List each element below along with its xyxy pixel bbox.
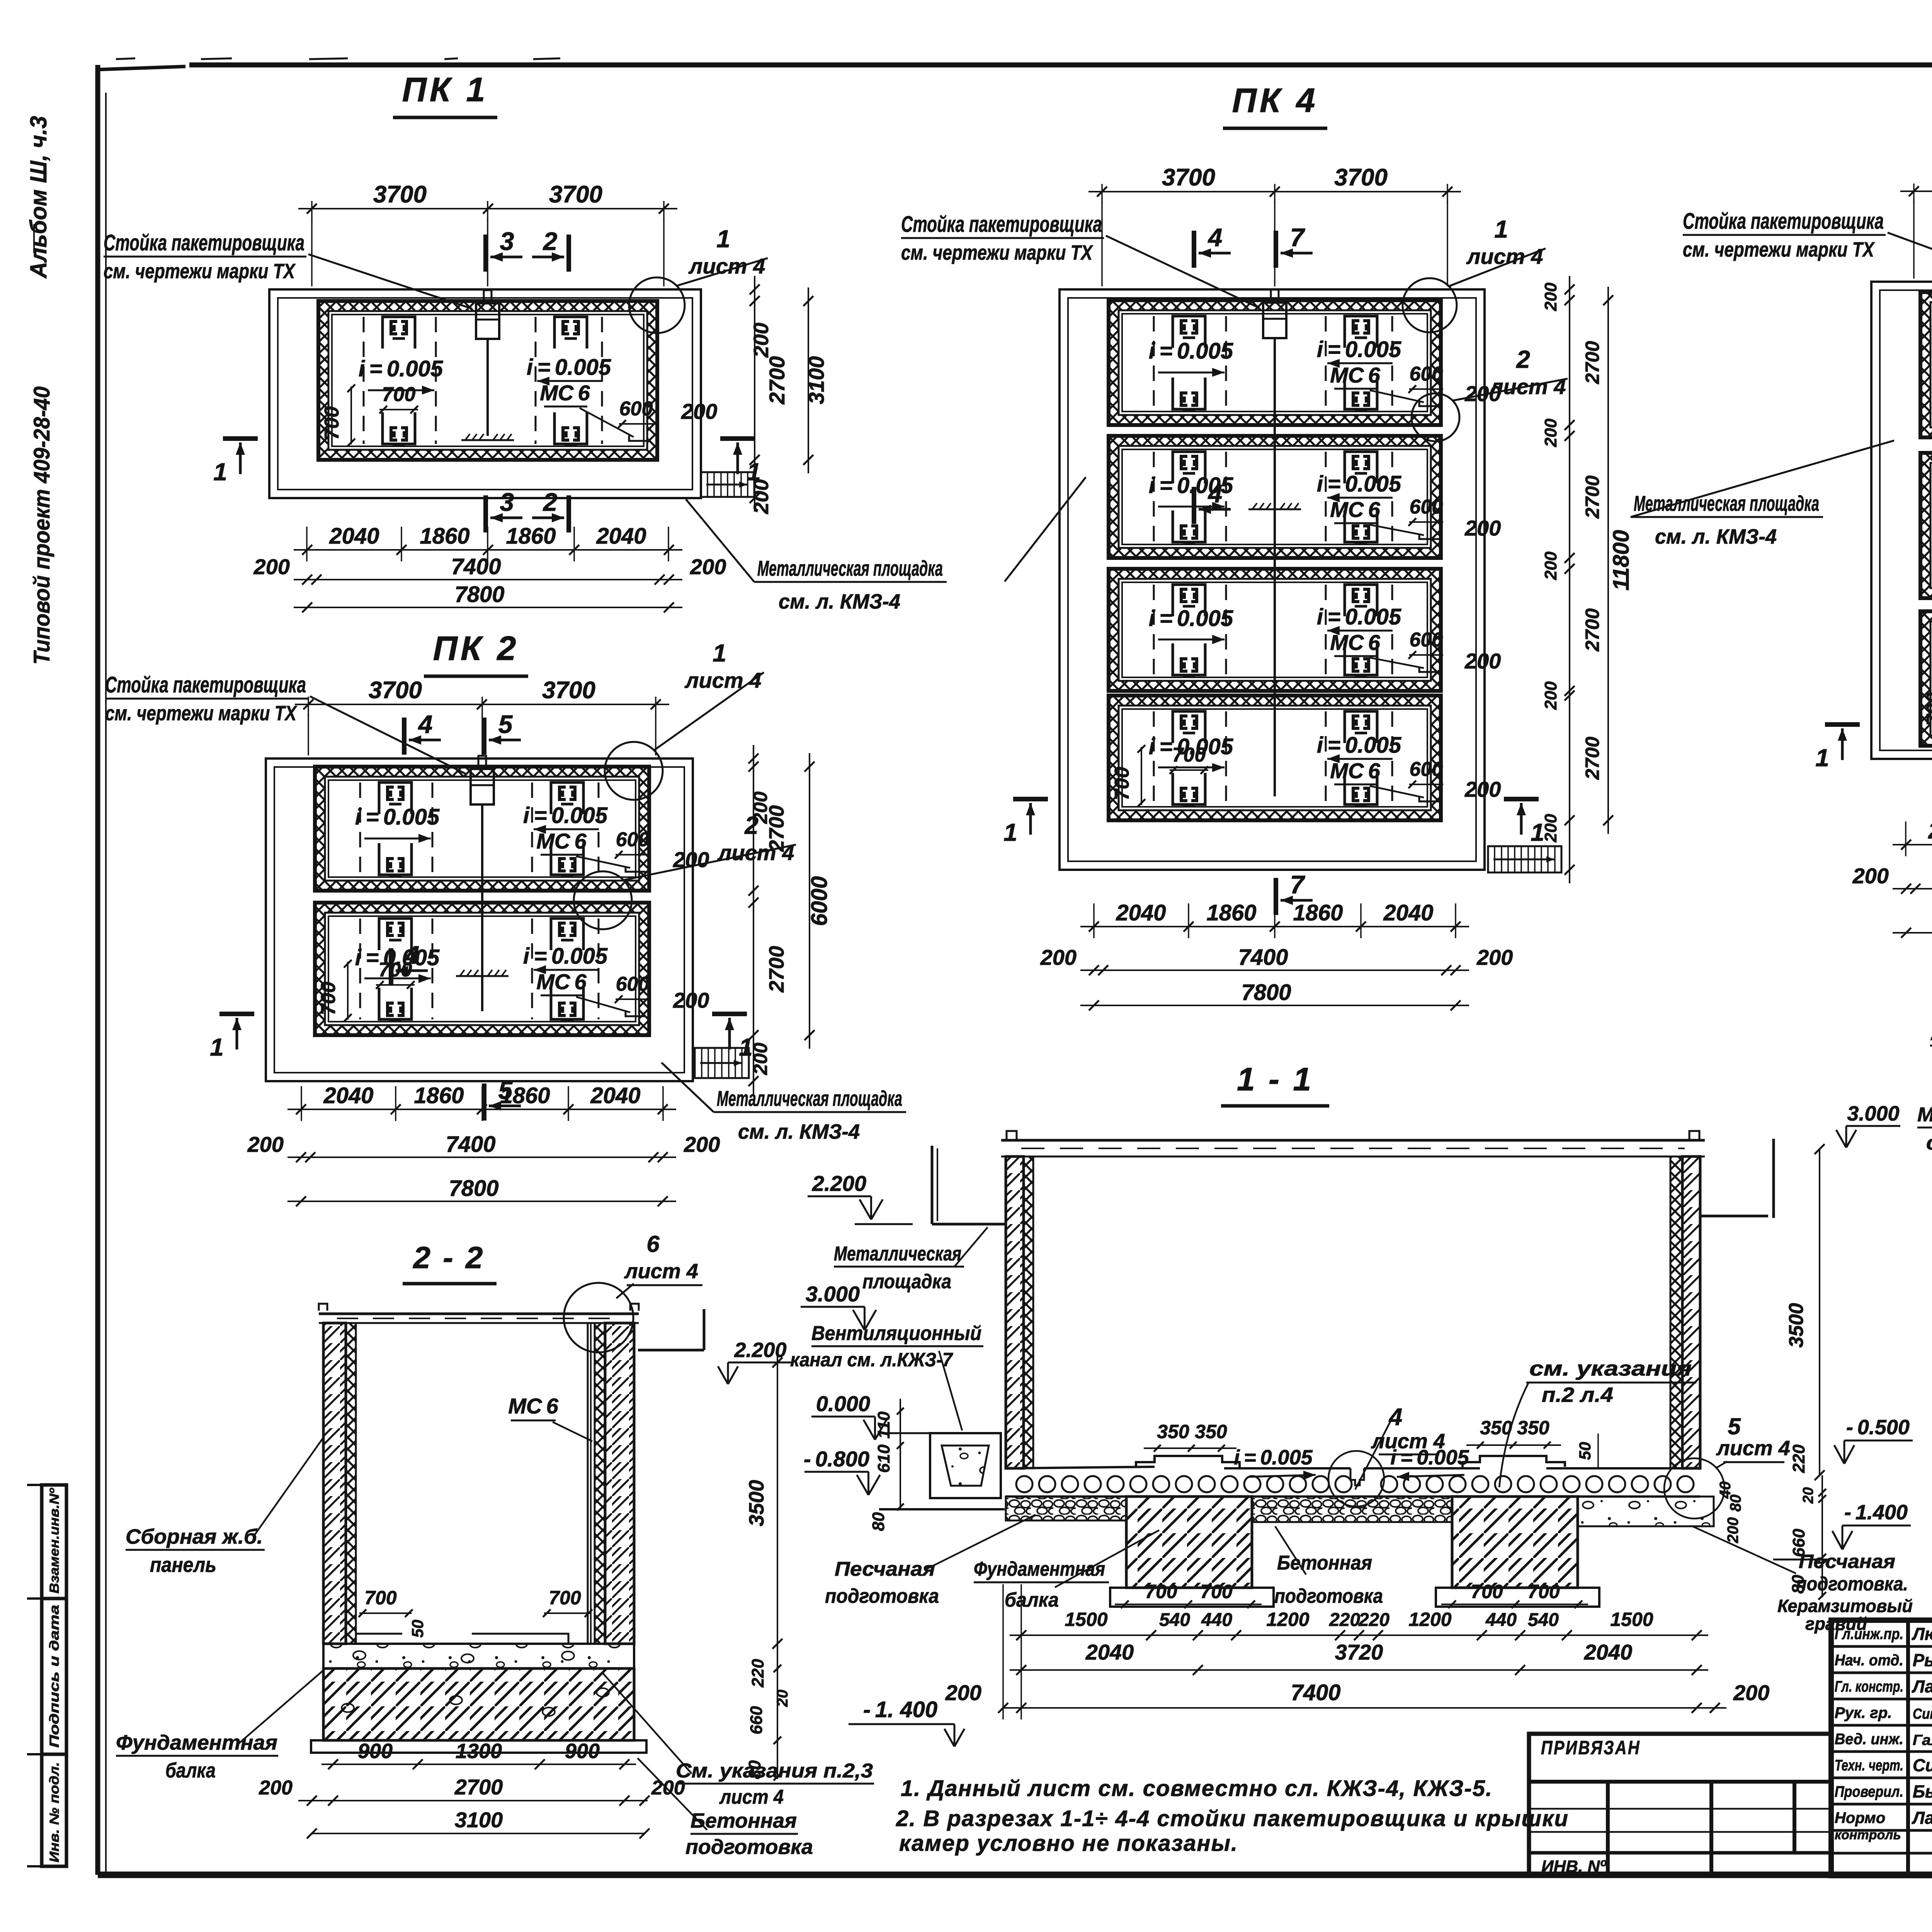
svg-text:2700: 2700 [1582,341,1603,384]
svg-text:610: 610 [874,1444,893,1473]
svg-text:80: 80 [1789,1575,1808,1594]
svg-text:лист 4: лист 4 [1466,244,1543,269]
svg-text:2700: 2700 [765,946,788,993]
dimension 3700+3700 ПК 4 [1088,191,1461,192]
svg-text:см. чертежи марки ТХ: см. чертежи марки ТХ [1683,238,1875,261]
svg-text:700: 700 [1200,1581,1233,1602]
section mark 1 vertical ПК 2 [219,1012,254,1016]
section mark 4 ПК 2 [402,718,406,755]
svg-text:7800: 7800 [454,582,504,607]
svg-text:3700: 3700 [1162,164,1215,191]
svg-text:2. В разрезах 1-1÷ 4-4 стойки: 2. В разрезах 1-1÷ 4-4 стойки пакетировщ… [896,1806,1569,1831]
svg-text:i = 0.005: i = 0.005 [523,803,608,828]
svg-text:i = 0.005: i = 0.005 [359,356,443,381]
section mark 3 ПК 1 [483,235,488,272]
svg-text:ПК 1: ПК 1 [402,70,488,109]
svg-text:200: 200 [750,479,773,514]
section 1-1 foundation beams [1126,1497,1252,1588]
svg-text:700: 700 [364,1587,397,1609]
svg-text:6: 6 [646,1231,660,1257]
svg-text:Керамзитовый: Керамзитовый [1777,1596,1913,1616]
svg-text:1500: 1500 [1065,1609,1107,1630]
svg-text:110: 110 [874,1411,893,1439]
svg-text:3100: 3100 [455,1808,503,1832]
I-beam supports ПК 1.1 [383,317,415,349]
plan ПК 1 stairs [701,472,754,497]
svg-text:3100: 3100 [804,356,828,405]
svg-text:200: 200 [259,1777,293,1799]
svg-text:Рыбкина: Рыбкина [1913,1650,1932,1670]
svg-text:3700: 3700 [1334,164,1388,191]
bottom dimension chains ПК 3 [1893,844,1932,845]
section mark 4 ПК 4 [1192,487,1196,524]
svg-text:200: 200 [945,1680,981,1705]
svg-text:см. чертежи марки ТХ: см. чертежи марки ТХ [105,702,297,725]
svg-text:i = 0.005: i = 0.005 [1149,606,1233,631]
svg-text:700: 700 [1471,1581,1503,1602]
svg-text:Симакова: Симакова [1913,1755,1932,1775]
svg-text:п.2 л.4: п.2 л.4 [1542,1383,1613,1406]
svg-text:660: 660 [747,1706,766,1735]
svg-text:лист 4: лист 4 [1716,1437,1790,1460]
svg-text:2: 2 [1516,345,1530,373]
dashed crane axes ПК 4.3 [1153,585,1155,675]
svg-text:3700: 3700 [369,677,422,704]
svg-text:350: 350 [1517,1417,1549,1439]
svg-text:1. Данный лист см. совместно: 1. Данный лист см. совместно сл. КЖЗ-4, … [901,1776,1493,1801]
section mark 7 ПК 4 [1274,878,1278,915]
svg-text:700: 700 [1527,1581,1560,1602]
svg-text:подготовка: подготовка [1274,1585,1383,1607]
svg-text:7800: 7800 [449,1176,498,1201]
svg-text:440: 440 [1485,1610,1517,1630]
svg-text:Быстров: Быстров [1913,1782,1932,1801]
svg-text:Гл.инж.пр.: Гл.инж.пр. [1835,1626,1903,1643]
section 1-1 floor plinths [1136,1456,1240,1468]
svg-text:200: 200 [1852,864,1889,888]
svg-text:ИНВ. Nº: ИНВ. Nº [1541,1857,1607,1876]
svg-text:Металлическая площадка: Металлическая площадка [1634,491,1819,515]
svg-text:Метал. площадка: Метал. площадка [1917,1104,1932,1126]
svg-text:контроль: контроль [1835,1828,1901,1842]
svg-text:2 - 2: 2 - 2 [412,1240,485,1275]
svg-text:1: 1 [1003,818,1017,846]
svg-text:МС 6: МС 6 [536,829,587,853]
svg-text:Вед. инж.: Вед. инж. [1835,1731,1903,1748]
svg-text:2040: 2040 [596,524,646,549]
dashed crane axes ПК 2.2 [359,918,361,1019]
svg-text:600: 600 [616,973,650,995]
svg-text:МС 6: МС 6 [1330,497,1380,522]
plan ПК 4 platform outline [1060,289,1485,870]
svg-text:лист 4: лист 4 [1489,374,1566,399]
svg-text:440: 440 [1201,1610,1232,1630]
section 2-2 top detail circle 6 [564,1283,633,1352]
packer stand ПК 4 [1271,289,1279,302]
privyazan box [1529,1734,1831,1876]
svg-text:балка: балка [1005,1589,1059,1611]
svg-text:см. указания: см. указания [1529,1357,1692,1380]
section 1-1 floor slab with voids [1006,1467,1155,1468]
svg-text:3.000: 3.000 [806,1282,860,1306]
chamber wall ПК 4.3 with insulation hatch [1109,569,1441,691]
svg-text:350: 350 [1480,1417,1512,1439]
svg-text:3: 3 [500,488,514,516]
chamber wall ПК 3.2 with insulation hatch [1920,453,1932,598]
svg-text:700: 700 [382,383,416,406]
svg-text:1860: 1860 [1293,900,1343,925]
svg-text:1860: 1860 [506,524,556,549]
svg-text:2040: 2040 [1383,900,1433,925]
I-beam supports ПК 4.3 [1173,585,1205,616]
svg-text:Техн. черт.: Техн. черт. [1835,1757,1903,1774]
svg-text:2700: 2700 [765,356,789,405]
svg-text:3: 3 [500,227,514,255]
dimension 3700+3700 ПК 2 [295,704,669,705]
svg-text:МС 6: МС 6 [540,381,590,405]
plan ПК 3 platform outline [1871,282,1932,759]
svg-text:2: 2 [543,227,558,255]
chamber wall ПК 3.3 with insulation hatch [1920,611,1932,746]
svg-text:200: 200 [1541,681,1560,710]
svg-text:Металлическая площадка: Металлическая площадка [757,556,943,580]
plan ПК 2 stairs [695,1048,749,1078]
svg-text:200: 200 [1733,1680,1769,1705]
section mark 5 ПК 2 [482,1083,486,1121]
svg-text:200: 200 [247,1132,284,1156]
section 2-2 floor slab [323,1644,634,1668]
svg-text:200: 200 [690,554,726,579]
svg-text:см. л. КМЗ-4: см. л. КМЗ-4 [1655,525,1777,548]
section mark 4 ПК 4 [1192,231,1196,268]
svg-text:200: 200 [253,554,290,579]
svg-text:Фундаментная: Фундаментная [974,1558,1105,1580]
svg-text:200: 200 [1464,777,1501,801]
svg-text:1300: 1300 [456,1740,502,1763]
svg-text:Фундаментная: Фундаментная [116,1731,277,1754]
svg-text:лист 4: лист 4 [719,1786,784,1808]
svg-text:4: 4 [1388,1404,1402,1430]
svg-text:220: 220 [1358,1610,1389,1630]
svg-text:40: 40 [1717,1481,1734,1499]
svg-text:1: 1 [716,225,730,253]
svg-text:1200: 1200 [1408,1609,1451,1630]
section 2-2 right vertical dims [777,1349,778,1657]
svg-text:- 0.500: - 0.500 [1846,1416,1910,1439]
svg-text:0.000: 0.000 [816,1391,870,1416]
section mark 1 vertical ПК 3 [1825,722,1860,727]
ground hatch at rail base ПК 4 [1248,509,1301,510]
section 2-2 cover slab [319,1313,639,1315]
svg-text:- 1.400: - 1.400 [1844,1501,1908,1524]
svg-text:540: 540 [1528,1610,1559,1630]
packer stand ПК 1 [484,290,492,303]
svg-text:700: 700 [321,406,343,440]
svg-text:панель: панель [150,1553,216,1577]
svg-text:Нормо: Нормо [1835,1810,1885,1827]
detail circle 1 list 4 ПК 4 [1403,278,1457,332]
section mark 3 ПК 1 [483,495,488,532]
svg-text:2040: 2040 [1584,1640,1633,1664]
svg-text:200: 200 [1476,945,1513,969]
chamber wall ПК 1.1 with insulation hatch [318,301,657,460]
svg-text:Лапкин: Лапкин [1912,1677,1932,1696]
svg-text:2.200: 2.200 [1930,1022,1932,1045]
svg-text:2040: 2040 [1085,1640,1134,1664]
svg-text:200: 200 [684,1132,720,1156]
svg-text:Металлическая площадка: Металлическая площадка [717,1086,902,1111]
svg-text:i = 0.005: i = 0.005 [1317,337,1401,362]
chamber wall ПК 4.1 with insulation hatch [1109,300,1441,425]
left margin stamp boxes [42,1485,66,1866]
bottom dimension chains ПК 4 [1080,926,1469,927]
svg-text:350: 350 [1157,1421,1189,1442]
svg-text:ПК 2: ПК 2 [433,629,519,667]
svg-text:200: 200 [1541,418,1560,447]
svg-text:4: 4 [405,940,420,969]
svg-text:7400: 7400 [446,1132,495,1157]
svg-text:11800: 11800 [1609,530,1634,591]
svg-text:2700: 2700 [1582,608,1603,651]
svg-text:50: 50 [408,1620,427,1638]
svg-text:220: 220 [1329,1610,1360,1630]
svg-text:i = 0.005: i = 0.005 [523,944,608,969]
svg-text:200: 200 [681,399,717,423]
svg-text:1860: 1860 [420,524,469,549]
svg-text:700: 700 [1172,744,1206,766]
svg-text:2700: 2700 [1582,736,1603,780]
svg-text:1200: 1200 [1266,1609,1309,1630]
svg-text:см. л. КМЗ-4: см. л. КМЗ-4 [779,590,900,613]
svg-text:см. л. КМЗ-4: см. л. КМЗ-4 [1926,1132,1932,1154]
svg-text:2040: 2040 [329,524,379,549]
right vertical dimensions ПК 2 [753,745,754,1095]
svg-text:Любавин: Любавин [1912,1624,1932,1644]
svg-text:Металлическая: Металлическая [834,1243,961,1265]
svg-text:7: 7 [1290,870,1306,899]
detail circle 1 list 4 ПК 2 [605,742,663,800]
svg-text:Вентиляционный: Вентиляционный [811,1322,981,1345]
section 1-1 right wall panel [1682,1156,1700,1468]
section 2-2 right wall [605,1323,634,1644]
svg-text:1860: 1860 [414,1083,464,1108]
svg-text:2.200: 2.200 [734,1338,786,1362]
svg-text:Взамен.инв.Nº: Взамен.инв.Nº [47,1488,62,1594]
sheet border frame [189,63,1932,68]
svg-text:1: 1 [213,458,227,486]
svg-text:2700: 2700 [1582,475,1603,519]
svg-text:200: 200 [1541,814,1560,843]
svg-text:2: 2 [744,811,759,839]
svg-text:1500: 1500 [1610,1609,1653,1630]
svg-text:200: 200 [1464,649,1501,673]
section 2-2 left wall [323,1323,346,1644]
svg-text:ПК 4: ПК 4 [1232,81,1318,119]
svg-text:50: 50 [1576,1442,1594,1460]
svg-text:200: 200 [1541,551,1560,580]
svg-text:900: 900 [358,1740,393,1763]
svg-text:600: 600 [1410,496,1443,518]
svg-text:Гл. констр.: Гл. констр. [1835,1678,1903,1695]
svg-text:см. чертежи марки ТХ: см. чертежи марки ТХ [901,241,1093,264]
section mark 5 ПК 2 [482,718,486,755]
svg-text:7400: 7400 [1291,1680,1340,1705]
svg-text:700: 700 [1923,692,1932,726]
I-beam supports ПК 2.2 [379,918,412,950]
svg-text:1: 1 [713,639,726,667]
svg-text:Стойка пакетировщика: Стойка пакетировщика [1683,209,1884,234]
ground hatch at rail base ПК 2 [456,975,509,977]
chamber wall ПК 4.4 with insulation hatch [1109,696,1441,820]
svg-text:Проверил.: Проверил. [1835,1783,1903,1800]
section 1-1 right-side dims [1819,1149,1820,1475]
detail circle 1 list 4 ПК 1 [629,277,685,333]
right vertical dimensions ПК 4 [1569,276,1570,883]
section 1-1 metal platform right [1700,1215,1768,1218]
dashed crane axes ПК 4.4 [1153,711,1155,804]
svg-text:лист 4: лист 4 [688,254,765,278]
svg-text:600: 600 [1410,629,1443,651]
svg-text:660: 660 [1789,1529,1808,1557]
svg-text:Лапкин: Лапкин [1912,1808,1932,1828]
svg-text:7400: 7400 [451,554,501,579]
svg-text:1: 1 [1815,744,1829,772]
svg-text:подготовка: подготовка [685,1835,813,1859]
svg-text:Рук. гр.: Рук. гр. [1835,1704,1892,1721]
section 1-1 drain notch [1350,1468,1364,1485]
chamber wall ПК 3.1 with insulation hatch [1920,292,1932,437]
svg-text:540: 540 [1159,1610,1190,1630]
svg-text:220: 220 [748,1659,767,1688]
svg-text:лист 4: лист 4 [1371,1430,1445,1453]
svg-text:2: 2 [543,488,558,516]
section mark 2 ПК 1 [566,495,571,532]
svg-text:4: 4 [1207,479,1223,508]
svg-text:канал см. л.КЖЗ-7: канал см. л.КЖЗ-7 [790,1349,953,1371]
svg-text:лист 4: лист 4 [717,840,794,865]
svg-text:Гальперина: Гальперина [1913,1732,1932,1748]
svg-text:3700: 3700 [373,181,427,208]
svg-text:20: 20 [1800,1487,1816,1504]
svg-text:Альбом Ш, ч.3: Альбом Ш, ч.3 [26,116,51,279]
packer stand ПК 2 [478,756,486,768]
dashed crane axes ПК 4.1 [1153,316,1155,409]
svg-text:подготовка.: подготовка. [1796,1573,1908,1595]
svg-text:МС 6: МС 6 [508,1394,558,1418]
svg-text:Нач. отд.: Нач. отд. [1835,1652,1903,1669]
svg-text:1: 1 [1494,215,1508,243]
svg-text:Песчаная: Песчаная [835,1558,935,1580]
svg-text:2040: 2040 [1116,900,1166,925]
I-beam supports ПК 4.1 [1173,316,1205,348]
I-beam supports ПК 4.4 [1173,711,1205,743]
svg-text:200: 200 [673,988,709,1012]
svg-text:2040: 2040 [590,1083,640,1108]
svg-text:- 0.800: - 0.800 [804,1447,869,1471]
svg-text:Стойка пакетировщика: Стойка пакетировщика [105,672,306,697]
svg-text:700: 700 [1111,767,1133,801]
section 1-1 metal platform left [932,1223,1006,1226]
chamber wall ПК 2.2 with insulation hatch [315,903,649,1035]
dimension 3700+3700 ПК 1 [298,208,677,209]
dashed crane axes ПК 4.2 [1153,452,1155,542]
svg-text:200: 200 [1040,945,1077,969]
title block signature columns [1906,1620,1910,1876]
svg-text:балка: балка [165,1759,216,1782]
svg-text:4: 4 [418,710,433,738]
svg-text:МС 6: МС 6 [1330,363,1380,387]
bottom dimension chains ПК 1 [294,549,682,551]
I-beam supports ПК 2.1 [379,782,412,814]
svg-text:7400: 7400 [1238,945,1288,970]
svg-text:3500: 3500 [1785,1303,1808,1348]
svg-text:i = 0.005: i = 0.005 [527,355,611,380]
svg-text:200: 200 [750,1043,771,1075]
svg-text:700: 700 [1145,1581,1177,1602]
svg-text:МС 6: МС 6 [1330,759,1380,783]
svg-text:20: 20 [774,1690,791,1708]
section 2-2 bottom dims [321,1764,636,1765]
svg-text:МС 6: МС 6 [1330,630,1380,655]
section 2-2 metal platform right [638,1349,704,1352]
svg-text:Подпись и дата: Подпись и дата [47,1605,62,1748]
chamber wall ПК 4.2 with insulation hatch [1109,436,1441,558]
svg-text:1 - 1: 1 - 1 [1237,1061,1313,1097]
svg-text:2700: 2700 [454,1775,503,1799]
svg-text:80: 80 [869,1512,888,1531]
section 1-1 cover slab [1001,1139,1705,1142]
svg-text:5: 5 [498,710,513,738]
svg-text:350: 350 [1195,1421,1227,1442]
svg-text:4: 4 [1207,223,1223,252]
svg-text:МС 6: МС 6 [536,969,587,994]
right vertical dimensions ПК 1 [754,276,755,512]
svg-text:3.000: 3.000 [1847,1102,1899,1125]
svg-text:200: 200 [1541,282,1560,311]
bottom dimension chains ПК 2 [287,1109,676,1110]
svg-text:1: 1 [210,1033,224,1061]
svg-text:i = 0.005: i = 0.005 [355,804,440,830]
chamber wall ПК 2.1 with insulation hatch [315,767,649,891]
svg-text:2040: 2040 [1928,818,1932,844]
svg-text:Инв. № подл.: Инв. № подл. [47,1762,62,1862]
svg-text:площадка: площадка [862,1270,951,1293]
section mark 1 vertical ПК 1 [223,436,258,441]
svg-text:лист 4: лист 4 [624,1260,698,1283]
dashed crane axes ПК 1.1 [363,317,365,444]
svg-text:5: 5 [498,1076,513,1104]
svg-text:600: 600 [1410,758,1443,781]
section 1-1 gravel underlay [1006,1497,1126,1520]
svg-text:Бетонная: Бетонная [1277,1552,1372,1574]
svg-text:3700: 3700 [542,677,595,704]
svg-text:Синельникова: Синельникова [1913,1706,1932,1722]
detail circle 2 list 4 ПК 2 [574,871,632,929]
svg-text:3720: 3720 [1335,1640,1383,1664]
svg-text:2040: 2040 [323,1083,373,1108]
svg-text:600: 600 [1410,363,1443,385]
svg-text:камер условно не показаны.: камер условно не показаны. [899,1831,1238,1856]
section 2-2 foundation block [323,1668,634,1740]
dimension 3700+3700 ПК 3 [1900,190,1932,192]
svg-text:200: 200 [651,1777,685,1799]
plan ПК 2 platform outline [266,759,693,1081]
section mark 7 ПК 4 [1274,231,1278,268]
title block outer [1831,1620,1932,1876]
svg-text:см. чертежи марки ТХ: см. чертежи марки ТХ [104,260,296,283]
svg-text:1860: 1860 [1206,900,1256,925]
svg-text:6000: 6000 [807,876,832,926]
